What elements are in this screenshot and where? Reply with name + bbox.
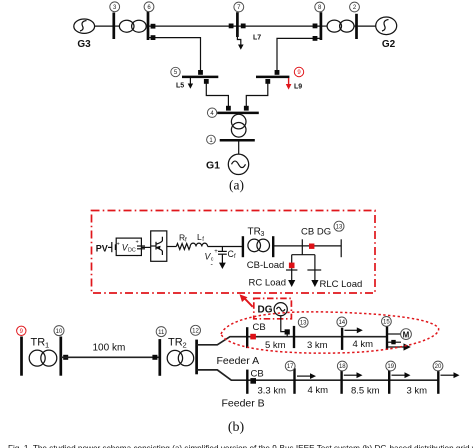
wire feeder B fork bbox=[197, 370, 439, 380]
bus under node 13 bbox=[340, 239, 342, 257]
transformer TR3 bbox=[248, 239, 270, 252]
node 13 (feeder) bbox=[298, 317, 308, 327]
wire RC load drop bbox=[291, 255, 293, 263]
breaker CB DG tick bbox=[301, 239, 303, 254]
svg-text:11: 11 bbox=[158, 330, 165, 336]
junction right of bus 7 bbox=[241, 24, 246, 29]
wire DG drop bbox=[281, 316, 287, 332]
DG callout box bbox=[254, 298, 292, 318]
svg-text:13: 13 bbox=[300, 321, 307, 327]
junction left of bus 8 bbox=[313, 24, 318, 29]
generator DG bbox=[274, 303, 287, 316]
node 12 bbox=[191, 325, 201, 335]
junction above bus 5 bbox=[198, 70, 203, 75]
bus 3 bbox=[112, 13, 115, 40]
RLC load tick bbox=[307, 269, 321, 271]
arrow feeder B flow 2 bbox=[344, 372, 363, 378]
wire bus 3 to transformer bbox=[114, 25, 120, 27]
wire Lf to TR3 bbox=[208, 246, 243, 248]
wire TR3 to node 13 bbox=[273, 245, 341, 247]
bus TR3 right bbox=[272, 236, 274, 257]
junction above bus 4 right bbox=[244, 106, 249, 111]
bus 15 bbox=[386, 326, 388, 350]
transformer TA2 bbox=[327, 20, 354, 32]
svg-text:TR: TR bbox=[31, 337, 46, 349]
node 8 bbox=[315, 2, 325, 12]
svg-text:3.3 km: 3.3 km bbox=[258, 386, 287, 397]
junction bus 6 line 2 bbox=[151, 35, 156, 40]
capacitor Cf branch bbox=[218, 247, 227, 270]
wire feeder A fork bbox=[197, 337, 387, 345]
svg-text:19: 19 bbox=[387, 364, 394, 370]
wire bus 6 to bus 5 (line 2 left) bbox=[148, 38, 201, 72]
breaker CB-Load contact bbox=[289, 263, 295, 269]
svg-text:M: M bbox=[403, 330, 410, 339]
dashed ellipse DG zone bbox=[221, 312, 439, 353]
svg-text:TR: TR bbox=[248, 227, 261, 238]
svg-text:Feeder B: Feeder B bbox=[222, 397, 265, 409]
svg-text:100 km: 100 km bbox=[93, 342, 126, 353]
bus TR3 left bbox=[242, 236, 244, 257]
bus TR1 left bbox=[20, 337, 23, 376]
junction above bus 4 left bbox=[226, 106, 231, 111]
bus 19 bbox=[388, 368, 390, 394]
bus 14 bbox=[341, 328, 343, 350]
bus feeder B start bbox=[246, 370, 248, 394]
svg-text:L: L bbox=[197, 232, 202, 242]
svg-text:-: - bbox=[136, 252, 138, 259]
wire bus 8 to bus 9 (line 2 right) bbox=[277, 38, 321, 72]
junction DG to feeder bbox=[285, 329, 290, 334]
generator G2 bbox=[376, 17, 397, 50]
wire load branch header bbox=[292, 254, 315, 256]
svg-text:TR: TR bbox=[168, 337, 183, 349]
load L5 bbox=[176, 78, 193, 90]
callout arrow to inset bbox=[240, 294, 253, 307]
svg-text:2: 2 bbox=[183, 340, 187, 349]
breaker square stub bbox=[391, 340, 395, 344]
svg-text:RLC Load: RLC Load bbox=[320, 279, 363, 290]
wire transformer to bus 2 bbox=[354, 25, 357, 27]
svg-text:G1: G1 bbox=[206, 159, 220, 171]
node 7 bbox=[234, 2, 244, 12]
bus TR1 right bbox=[59, 337, 62, 376]
bus feeder A start bbox=[246, 327, 248, 348]
svg-text:DG: DG bbox=[258, 305, 273, 316]
load L7 bbox=[237, 31, 261, 50]
svg-text:18: 18 bbox=[339, 364, 346, 370]
svg-text:f: f bbox=[234, 254, 236, 260]
svg-text:3 km: 3 km bbox=[307, 340, 328, 351]
bus 2 bbox=[355, 14, 358, 39]
battery PV source bbox=[112, 241, 120, 252]
resistor Rf bbox=[176, 232, 190, 249]
node 1 bbox=[207, 135, 216, 144]
svg-text:DC: DC bbox=[128, 248, 136, 254]
bus 17 bbox=[293, 368, 295, 394]
svg-text:5 km: 5 km bbox=[265, 340, 286, 351]
bus 6 bbox=[147, 11, 150, 41]
arrow feeder B flow 1 bbox=[297, 373, 316, 379]
node 3 bbox=[110, 2, 120, 12]
node 11 bbox=[156, 327, 166, 337]
bus 1 bbox=[220, 139, 255, 142]
wire bus 15 middle stub bbox=[387, 341, 401, 343]
svg-text:15: 15 bbox=[383, 320, 390, 326]
wire transformer to bus 6 bbox=[146, 25, 148, 27]
wire G3 to bus 3 bbox=[95, 25, 113, 27]
breaker CB DG contact bbox=[309, 244, 314, 249]
svg-text:13: 13 bbox=[336, 224, 343, 230]
value label Vc bbox=[205, 249, 219, 268]
svg-text:f: f bbox=[202, 237, 204, 243]
svg-text:CB: CB bbox=[253, 322, 266, 333]
svg-text:PV: PV bbox=[96, 243, 108, 253]
wire bus 5 to bus 4 bbox=[206, 79, 228, 110]
svg-text:10: 10 bbox=[56, 329, 63, 335]
node 20 bbox=[433, 361, 443, 371]
svg-text:+: + bbox=[136, 240, 139, 246]
junction left of bus 7 bbox=[229, 24, 234, 29]
junction bus 8 line 2 bbox=[313, 36, 318, 41]
svg-text:3: 3 bbox=[261, 231, 265, 238]
svg-text:-: - bbox=[211, 262, 214, 269]
svg-text:G2: G2 bbox=[382, 39, 396, 50]
node 5 bbox=[171, 67, 180, 76]
svg-text:Feeder A: Feeder A bbox=[217, 355, 260, 367]
svg-text:L5: L5 bbox=[176, 83, 184, 90]
motor M bbox=[401, 329, 412, 340]
arrow feeder A end bbox=[387, 343, 411, 350]
bus 12 bbox=[195, 340, 198, 375]
svg-text:CB: CB bbox=[251, 368, 264, 379]
junction bus 6 line 1 bbox=[151, 24, 156, 29]
junction below bus 9 bbox=[265, 79, 270, 84]
wire box to converter bbox=[141, 246, 150, 248]
wire converter to Rf bbox=[167, 246, 177, 248]
RC load arrow bbox=[288, 268, 295, 287]
junction above bus 9 bbox=[275, 70, 280, 75]
bus TR2 left bbox=[158, 339, 161, 376]
svg-text:L9: L9 bbox=[294, 84, 302, 91]
node 10 bbox=[54, 326, 64, 336]
wire bus 1 to G1 bbox=[238, 140, 240, 154]
breaker CB feeder A bbox=[250, 334, 256, 340]
wire bus 15 to motor bbox=[387, 333, 401, 335]
svg-text:+: + bbox=[117, 241, 120, 247]
node 18 bbox=[337, 361, 347, 371]
svg-text:12: 12 bbox=[192, 329, 199, 335]
wire bus 6 to bus 8 (line 1) bbox=[148, 25, 321, 27]
node 17 bbox=[285, 361, 295, 371]
bus 7 bbox=[236, 12, 239, 37]
transformer TA3 bbox=[231, 114, 246, 137]
load L9 bbox=[286, 78, 302, 91]
svg-text:(a): (a) bbox=[229, 177, 244, 192]
arrow feeder B flow 3 bbox=[392, 372, 411, 378]
node 9 (grid) bbox=[17, 326, 26, 335]
node 15 bbox=[382, 317, 392, 327]
svg-text:CB-Load: CB-Load bbox=[247, 260, 284, 271]
transformer TR1 bbox=[29, 350, 57, 366]
inductor Lf bbox=[190, 232, 207, 247]
bus 5 bbox=[182, 76, 218, 79]
RC load tick bbox=[286, 269, 297, 271]
svg-text:4 km: 4 km bbox=[308, 385, 329, 396]
node 2 bbox=[350, 2, 360, 12]
svg-text:G3: G3 bbox=[77, 39, 91, 50]
svg-text:Fig. 1. The studied power: Fig. 1. The studied power schema consist… bbox=[8, 444, 474, 448]
node 6 bbox=[144, 2, 154, 12]
junction below bus 5 bbox=[204, 79, 209, 84]
arrow feeder A flow bbox=[345, 327, 363, 333]
bus 4 bbox=[217, 112, 259, 115]
svg-text:1: 1 bbox=[45, 340, 49, 349]
svg-text:+: + bbox=[214, 249, 218, 255]
node 13 (inset) bbox=[334, 221, 344, 231]
transformer TA1 bbox=[119, 20, 146, 32]
node 19 bbox=[386, 361, 396, 371]
svg-text:CB DG: CB DG bbox=[301, 227, 331, 238]
svg-text:8.5 km: 8.5 km bbox=[351, 386, 380, 397]
wire RLC load drop bbox=[314, 255, 316, 281]
wire junction to line bbox=[286, 335, 288, 337]
junction TR1 line bbox=[63, 355, 68, 360]
bus 9 bbox=[256, 76, 289, 79]
svg-text:20: 20 bbox=[435, 364, 442, 370]
svg-text:3 km: 3 km bbox=[407, 386, 428, 397]
RLC load arrow bbox=[311, 280, 318, 287]
bus 13 (feeder) bbox=[293, 326, 295, 348]
generator G1 bbox=[206, 154, 249, 174]
converter U1 bbox=[151, 231, 167, 261]
wire PV to battery bbox=[108, 246, 112, 248]
node 9 bbox=[294, 67, 303, 76]
transformer TR2 bbox=[167, 350, 194, 365]
svg-text:RC Load: RC Load bbox=[249, 277, 287, 288]
breaker CB feeder B bbox=[250, 378, 256, 384]
svg-text:17: 17 bbox=[287, 364, 294, 370]
svg-text:L7: L7 bbox=[253, 35, 261, 42]
generator G3 bbox=[74, 19, 95, 50]
bus 20 bbox=[437, 368, 439, 394]
wire bus 2 to G2 bbox=[357, 25, 376, 27]
wire bus 8 to transformer bbox=[321, 25, 327, 27]
bus 18 bbox=[340, 368, 342, 394]
node 4 bbox=[207, 108, 216, 117]
junction TR2 line bbox=[152, 355, 157, 360]
svg-text:(b): (b) bbox=[228, 420, 245, 435]
svg-text:14: 14 bbox=[338, 320, 345, 326]
arrow feeder B end bbox=[441, 372, 460, 378]
dc-link box bbox=[116, 238, 141, 255]
inset border bbox=[92, 211, 376, 294]
capacitor dc-link bbox=[136, 240, 146, 260]
svg-text:4 km: 4 km bbox=[353, 339, 374, 350]
node 14 bbox=[337, 317, 347, 327]
bus 8 bbox=[320, 12, 323, 40]
wire 100 km line bbox=[61, 356, 160, 358]
wire bus 9 to bus 4 bbox=[246, 79, 267, 110]
